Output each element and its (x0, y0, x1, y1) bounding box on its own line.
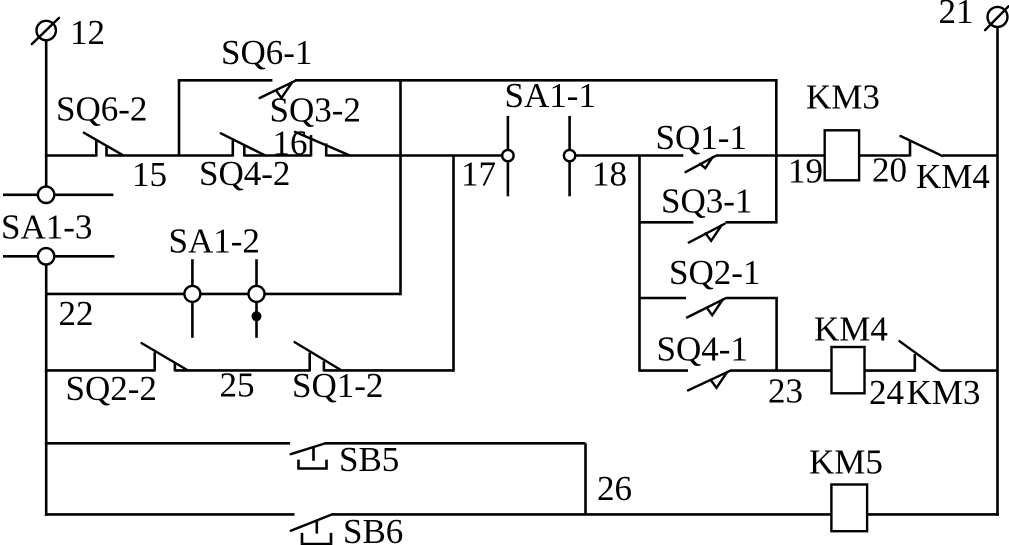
contact KM4 (NC on main row) (901, 136, 990, 196)
contact SQ3-1 (661, 182, 752, 243)
svg-text:SQ2-1: SQ2-1 (669, 253, 760, 292)
contact SQ2-1 (669, 253, 760, 318)
svg-text:KM4: KM4 (814, 310, 888, 349)
svg-text:SQ6-1: SQ6-1 (221, 33, 312, 72)
left rail (45, 40, 48, 516)
svg-text:18: 18 (592, 155, 627, 194)
svg-text:25: 25 (220, 366, 255, 405)
wire main row (45, 154, 998, 157)
svg-text:KM3: KM3 (907, 373, 981, 412)
svg-text:20: 20 (872, 151, 907, 190)
pushbutton SB6 (291, 512, 404, 545)
right rail (996, 27, 999, 516)
svg-text:SB6: SB6 (343, 512, 403, 545)
svg-text:SQ4-1: SQ4-1 (657, 330, 748, 369)
svg-text:SA1-3: SA1-3 (1, 208, 92, 247)
wire SA1-2 row (46, 293, 400, 296)
coil KM5 (809, 443, 883, 532)
switch SA1-2 (169, 222, 265, 338)
svg-text:SQ3-1: SQ3-1 (661, 182, 752, 221)
switch SA1-3 (1, 187, 114, 265)
coil KM4 (814, 310, 888, 394)
svg-text:SA1-2: SA1-2 (169, 222, 260, 261)
top branch wire SQ6-1 (179, 79, 778, 82)
wire riser x585 (584, 443, 587, 514)
svg-text:SQ6-2: SQ6-2 (56, 90, 147, 129)
wire bottom row (45, 513, 999, 516)
terminal 21 (939, 0, 1009, 31)
svg-text:19: 19 (788, 152, 823, 191)
svg-text:SQ1-2: SQ1-2 (292, 366, 383, 405)
terminal 12 (32, 13, 105, 52)
wire riser x179 (178, 79, 181, 156)
contact SQ6-2 (56, 90, 167, 195)
coil KM3 (806, 78, 880, 181)
svg-text:23: 23 (768, 372, 803, 411)
contact SQ3-2 (270, 91, 361, 157)
wire SQ2-1 row (640, 298, 778, 372)
svg-text:12: 12 (70, 13, 105, 52)
svg-text:KM3: KM3 (806, 78, 880, 117)
wire SQ3-1 row (640, 221, 778, 224)
svg-text:KM4: KM4 (916, 157, 990, 196)
svg-text:KM5: KM5 (809, 443, 883, 482)
svg-text:SQ2-2: SQ2-2 (66, 369, 157, 408)
wire riser x776 (775, 79, 778, 222)
svg-text:15: 15 (132, 155, 167, 194)
svg-text:24: 24 (869, 373, 904, 412)
svg-text:17: 17 (461, 155, 496, 194)
svg-text:SQ1-1: SQ1-1 (656, 118, 747, 157)
contact SQ4-2 (199, 133, 290, 193)
wire riser x400 (399, 79, 402, 295)
wire SB5 row (45, 442, 586, 445)
svg-text:21: 21 (939, 0, 974, 31)
wire riser x456 (452, 156, 455, 372)
svg-text:26: 26 (597, 469, 632, 508)
contact SQ2-2 (66, 343, 188, 408)
contact SQ4-1 (657, 330, 748, 391)
svg-text:22: 22 (59, 294, 94, 333)
contact SQ1-1 (656, 118, 747, 172)
contact KM3 (NC on KM4 row) (900, 341, 981, 412)
wire SQ2-2 row (45, 369, 454, 372)
wire KM4 row (640, 369, 998, 372)
contact SQ6-1 (221, 33, 312, 98)
vertical x639 (638, 156, 641, 372)
contact SQ1-2 (292, 342, 383, 405)
svg-text:SA1-1: SA1-1 (505, 76, 596, 115)
svg-text:SB5: SB5 (339, 440, 399, 479)
pushbutton SB5 (291, 440, 400, 479)
switch SA1-1 (502, 76, 596, 196)
